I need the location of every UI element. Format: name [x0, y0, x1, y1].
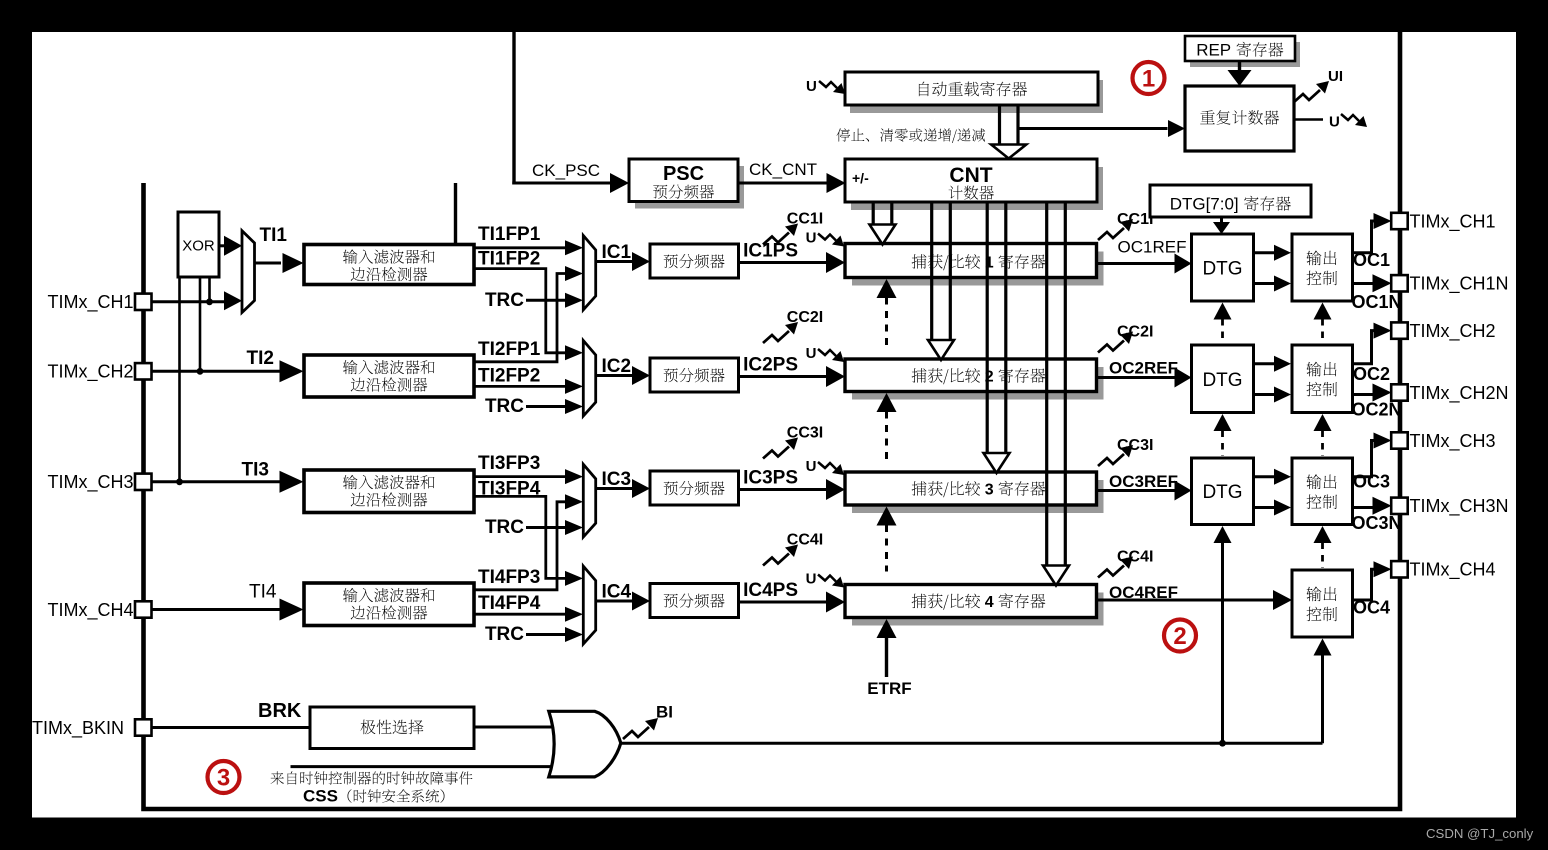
wire IC3PS into capture register	[739, 488, 829, 491]
auto-reload register box	[850, 80, 1103, 113]
wire OC4 to pin	[1353, 569, 1375, 600]
wire TI3 input	[152, 480, 281, 483]
arrow DTG register into DTG1	[1220, 217, 1223, 224]
pin TIMx_CH3N	[1391, 498, 1408, 514]
wire IC1PS into capture register	[739, 261, 829, 264]
arrows DTG1 to output control	[1254, 251, 1275, 254]
wire IC2PS into capture register	[739, 375, 829, 378]
wire U output of repetition counter	[1294, 118, 1323, 121]
svg-text:OC1N: OC1N	[1352, 292, 1402, 312]
svg-text:REP: REP	[1196, 41, 1231, 60]
DTG box 1	[1192, 234, 1254, 301]
svg-text:BRK: BRK	[258, 700, 302, 722]
svg-text:DTG: DTG	[1202, 370, 1242, 391]
label stop clear up/down	[837, 128, 986, 143]
ETRF arrow into capture 4	[877, 619, 897, 638]
dashed capture transfer arrow under capture 1	[877, 279, 897, 298]
svg-text:TI2: TI2	[247, 348, 274, 369]
wire TI2FP1 routed up	[474, 274, 567, 362]
svg-text:OC3REF: OC3REF	[1109, 472, 1178, 491]
wire IC4 into prescaler	[596, 600, 632, 603]
wire OC3REF	[1097, 489, 1176, 492]
wire OC3 to pin	[1353, 441, 1375, 477]
DTG[7:0] register box	[1150, 185, 1311, 217]
pin TIMx_CH2 left	[135, 363, 152, 379]
svg-text:IC2PS: IC2PS	[743, 355, 798, 376]
svg-text:TRC: TRC	[485, 517, 524, 538]
svg-text:TIMx_CH1: TIMx_CH1	[47, 292, 133, 313]
svg-text:TI2FP2: TI2FP2	[478, 366, 540, 387]
wire polarity to OR gate	[474, 726, 562, 729]
pin TIMx_CH3	[1391, 432, 1408, 448]
svg-text:2: 2	[1173, 623, 1186, 650]
svg-text:TIMx_CH2: TIMx_CH2	[1410, 321, 1496, 342]
wire IC3 into prescaler	[596, 487, 632, 490]
wire IC4PS into capture register	[739, 601, 829, 604]
arrows DTG3 to output control	[1254, 475, 1275, 478]
svg-text:OC1REF: OC1REF	[1118, 238, 1187, 257]
arrowhead into CNT	[827, 173, 846, 193]
prescaler box IC2	[650, 358, 739, 392]
pin TIMx_CH1	[1391, 213, 1408, 229]
wire TI4 input	[152, 608, 281, 611]
pin TIMx_CH4	[1391, 561, 1408, 577]
svg-text:ETRF: ETRF	[867, 679, 911, 698]
wire OC1N to pin	[1353, 282, 1375, 285]
svg-text:IC3: IC3	[602, 469, 632, 490]
arrow XOR output into TI1 mux	[219, 244, 227, 247]
output control box 2	[1292, 345, 1353, 413]
arrows DTG2 to output control	[1254, 362, 1275, 365]
wire OC1 to pin	[1353, 221, 1375, 253]
XOR input stub from CH3	[178, 277, 181, 482]
arrowhead into PSC	[610, 173, 629, 193]
svg-text:TIMx_CH3: TIMx_CH3	[47, 472, 133, 493]
svg-text:TI1: TI1	[260, 225, 288, 246]
dashed arrow into DTG1 bottom	[1214, 303, 1232, 320]
pin TIMx_CH2	[1391, 322, 1408, 338]
svg-text:OC3N: OC3N	[1352, 513, 1402, 533]
hollow arrow CNT to capture 1	[872, 202, 875, 227]
svg-text:TI2FP1: TI2FP1	[478, 339, 541, 360]
svg-text:TIMx_BKIN: TIMx_BKIN	[32, 718, 124, 739]
svg-text:OC2N: OC2N	[1352, 400, 1402, 420]
svg-text:TI3FP3: TI3FP3	[478, 453, 540, 474]
hollow arrow reload to CNT	[998, 105, 1001, 146]
wire reload to repetition counter	[1018, 127, 1168, 130]
IC4 selector mux	[583, 566, 595, 644]
svg-text:PSC: PSC	[663, 163, 704, 185]
hollow arrow CNT to capture 2	[930, 202, 933, 342]
svg-text:TIMx_CH2N: TIMx_CH2N	[1410, 383, 1509, 404]
output control box 4	[1292, 570, 1353, 637]
wire TI1FP2 routed down	[474, 269, 567, 353]
pin TIMx_CH2N	[1391, 384, 1408, 400]
REP register box	[1190, 42, 1300, 67]
mux 3 input arrowheads	[565, 469, 583, 484]
wire OC1REF	[1097, 262, 1176, 265]
svg-text:U: U	[806, 78, 817, 95]
svg-text:OC4: OC4	[1353, 598, 1390, 618]
wire CK_CNT	[738, 182, 827, 185]
capture/compare 2 register box	[852, 367, 1104, 400]
circled 2 annotation	[1164, 620, 1196, 652]
wire CSS fault event to OR gate	[291, 765, 566, 768]
svg-text:OC4REF: OC4REF	[1109, 583, 1178, 602]
svg-text:U: U	[806, 345, 817, 362]
prescaler box IC4	[650, 584, 739, 618]
svg-text:OC2: OC2	[1353, 364, 1390, 384]
svg-text:U: U	[806, 458, 817, 475]
wire TI3FP4 routed down	[474, 496, 567, 578]
XOR input stub from CH2	[199, 277, 202, 371]
svg-text:TIMx_CH1N: TIMx_CH1N	[1410, 274, 1509, 295]
prescaler box IC1	[650, 244, 739, 278]
svg-text:CSS: CSS	[303, 787, 338, 806]
dashed capture transfer arrow under capture 3	[877, 507, 897, 526]
wire TI3FP3	[474, 475, 567, 478]
svg-text:TI4FP3: TI4FP3	[478, 567, 540, 588]
svg-text:TIMx_CH1: TIMx_CH1	[1410, 211, 1496, 232]
pin TIMx_CH3 left	[135, 474, 152, 490]
wire OC4REF	[1097, 599, 1275, 602]
output control box 3	[1292, 458, 1353, 525]
svg-text:OC3: OC3	[1353, 472, 1390, 492]
mux 1 input arrowheads	[565, 240, 583, 255]
hollow arrow CNT to capture 3	[986, 202, 989, 455]
TI1 selector mux	[242, 231, 255, 313]
XOR input stub from CH1	[208, 277, 211, 302]
input filter and edge detector box 4	[304, 583, 474, 626]
svg-text:DTG[7:0]: DTG[7:0]	[1170, 195, 1239, 214]
svg-text:TI1FP2: TI1FP2	[478, 249, 540, 270]
wire OC2 to pin	[1353, 331, 1375, 364]
svg-text:TI4: TI4	[249, 582, 277, 603]
svg-text:3: 3	[985, 482, 994, 499]
prescaler box IC3	[650, 471, 739, 505]
arrowhead into repetition counter	[1168, 120, 1185, 137]
svg-text:TRC: TRC	[485, 624, 524, 645]
svg-text:IC4: IC4	[602, 582, 632, 603]
wire TI2 input	[152, 370, 281, 373]
svg-text:DTG: DTG	[1202, 482, 1242, 503]
IC3 selector mux	[583, 464, 595, 537]
wire OC2N to pin	[1353, 393, 1375, 396]
capture/compare 3 register box	[852, 480, 1104, 513]
wire IC2 into prescaler	[596, 374, 632, 377]
svg-text:TI1FP1: TI1FP1	[478, 224, 541, 245]
DTG box 2	[1192, 345, 1254, 413]
XOR box	[178, 212, 219, 277]
wire OC3N to pin	[1353, 506, 1375, 509]
svg-text:+/-: +/-	[852, 170, 869, 186]
DTG box 3	[1192, 458, 1254, 525]
solid arrow into DTG3 bottom from break line	[1214, 526, 1232, 543]
hollow arrow CNT to capture 4	[1045, 202, 1048, 568]
svg-text:1: 1	[1142, 66, 1155, 93]
svg-text:UI: UI	[1328, 68, 1343, 85]
wire TI1 into filter	[255, 262, 282, 265]
dashed arrow into output control 2 bottom	[1314, 414, 1332, 431]
capture/compare 4 register box	[852, 593, 1104, 626]
input filter and edge detector box 3	[304, 470, 474, 513]
mux 2 input arrowheads	[565, 345, 583, 360]
svg-text:CNT: CNT	[949, 164, 992, 187]
wire stub above input filter 1	[454, 183, 457, 246]
svg-text:IC2: IC2	[602, 356, 632, 377]
mux 4 input arrowheads	[565, 571, 583, 586]
pin TIMx_BKIN	[135, 719, 152, 735]
svg-text:CC3I: CC3I	[1117, 437, 1153, 454]
polarity select box	[310, 707, 474, 749]
pin TIMx_CH1 left	[135, 294, 152, 310]
dashed arrow into output control 1 bottom	[1314, 303, 1332, 320]
wire BKIN to polarity box	[152, 726, 311, 729]
svg-text:OC2REF: OC2REF	[1109, 359, 1178, 378]
dashed capture transfer arrow under capture 2	[877, 393, 897, 412]
svg-text:TIMx_CH3N: TIMx_CH3N	[1410, 496, 1509, 517]
svg-text:IC1: IC1	[602, 242, 632, 263]
svg-text:OC1: OC1	[1353, 250, 1390, 270]
svg-text:TRC: TRC	[485, 396, 524, 417]
svg-text:CK_CNT: CK_CNT	[749, 160, 817, 179]
svg-text:U: U	[806, 571, 817, 588]
wire TIMx_CH1 input	[152, 300, 229, 303]
svg-text:BI: BI	[656, 703, 673, 722]
pin TIMx_CH4 left	[135, 601, 152, 617]
PSC prescaler box	[635, 166, 744, 209]
break output line	[621, 742, 1323, 745]
wire OC2REF	[1097, 376, 1176, 379]
svg-text:U: U	[1329, 114, 1340, 131]
svg-text:DTG: DTG	[1202, 259, 1242, 280]
solid arrow into output control 4 bottom from break line	[1314, 639, 1332, 656]
wire IC1 into prescaler	[596, 260, 632, 263]
IC1 selector mux	[583, 236, 595, 310]
label clock failure event text	[271, 771, 473, 784]
input filter and edge detector box 2	[304, 355, 474, 397]
svg-text:TRC: TRC	[485, 290, 524, 311]
svg-text:CSDN @TJ_conly: CSDN @TJ_conly	[1426, 826, 1534, 841]
circled 1 annotation	[1133, 62, 1165, 94]
svg-text:IC3PS: IC3PS	[743, 468, 798, 489]
IC2 selector mux	[583, 341, 595, 417]
repetition counter box	[1185, 86, 1294, 151]
wire TI4FP4	[474, 613, 567, 616]
svg-text:TIMx_CH3: TIMx_CH3	[1410, 431, 1496, 452]
circled 3 annotation	[208, 761, 240, 793]
OR gate	[549, 711, 621, 777]
dashed arrow into output control 3 bottom	[1314, 526, 1332, 543]
wire TI1FP1	[474, 246, 567, 249]
input filter and edge detector box 1	[304, 245, 474, 285]
svg-text:CK_PSC: CK_PSC	[532, 161, 600, 180]
pin TIMx_CH1N	[1391, 275, 1408, 291]
svg-text:XOR: XOR	[182, 238, 215, 255]
wire TI4FP3 routed up	[474, 502, 567, 590]
capture/compare 1 register box	[852, 252, 1104, 286]
CNT counter box	[851, 167, 1103, 210]
outer frame of timer block	[144, 32, 1401, 809]
svg-text:U: U	[806, 230, 817, 247]
svg-text:TI4FP4: TI4FP4	[478, 593, 541, 614]
svg-text:TIMx_CH4: TIMx_CH4	[1410, 560, 1496, 581]
svg-text:CC4I: CC4I	[1117, 549, 1153, 566]
svg-text:CC2I: CC2I	[1117, 324, 1153, 341]
dashed arrow into DTG2 bottom	[1214, 414, 1232, 431]
svg-text:TI3: TI3	[242, 460, 269, 481]
arrow REP to repetition counter	[1238, 61, 1241, 71]
svg-text:IC4PS: IC4PS	[743, 580, 798, 601]
svg-text:3: 3	[217, 765, 230, 792]
wire TI2FP2	[474, 385, 567, 388]
wire CK input from top	[512, 32, 515, 185]
svg-text:CC1I: CC1I	[1117, 211, 1153, 228]
svg-text:4: 4	[985, 594, 994, 611]
svg-text:IC1PS: IC1PS	[743, 241, 798, 262]
svg-text:TIMx_CH2: TIMx_CH2	[47, 362, 133, 383]
output control box 1	[1292, 234, 1353, 301]
svg-text:TIMx_CH4: TIMx_CH4	[47, 600, 133, 621]
